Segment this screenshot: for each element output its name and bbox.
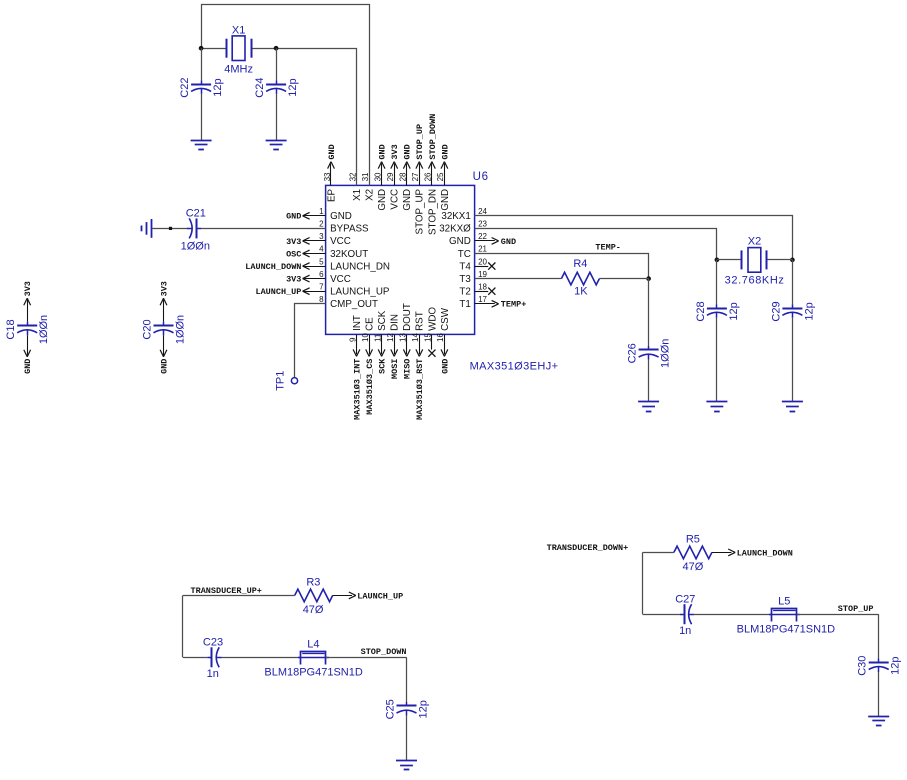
svg-text:MISO: MISO bbox=[403, 359, 413, 379]
wire L4 to corner bbox=[326, 657, 407, 659]
svg-text:GND: GND bbox=[159, 359, 169, 374]
C24 value 12p bbox=[287, 78, 299, 96]
svg-text:12p: 12p bbox=[803, 302, 815, 320]
pin 28 GND bbox=[399, 144, 414, 210]
svg-text:12p: 12p bbox=[212, 78, 224, 96]
pin 24 32KX1 bbox=[441, 207, 487, 222]
C26 reference designator bbox=[627, 343, 639, 363]
svg-text:X1: X1 bbox=[352, 189, 363, 201]
svg-text:19: 19 bbox=[478, 270, 487, 279]
svg-text:1n: 1n bbox=[679, 625, 691, 637]
svg-text:20: 20 bbox=[478, 257, 487, 266]
C30 reference designator bbox=[857, 656, 869, 676]
L4 value BLM18PG471SN1D bbox=[264, 667, 362, 679]
svg-text:32KX1: 32KX1 bbox=[441, 211, 470, 222]
svg-text:GND: GND bbox=[449, 236, 471, 247]
wire X1 right lead bbox=[251, 48, 276, 50]
svg-text:MAX351Ø3EHJ+: MAX351Ø3EHJ+ bbox=[470, 361, 559, 373]
svg-text:C18: C18 bbox=[5, 319, 17, 339]
svg-text:T1: T1 bbox=[459, 299, 470, 310]
svg-text:STOP_UP: STOP_UP bbox=[838, 604, 874, 614]
svg-text:R4: R4 bbox=[573, 258, 587, 270]
L5 reference designator bbox=[778, 596, 790, 608]
svg-text:4: 4 bbox=[319, 245, 324, 254]
svg-text:12p: 12p bbox=[418, 700, 430, 718]
capacitor C30 bbox=[869, 658, 889, 672]
pin 30 GND bbox=[373, 144, 388, 210]
C23 value 1n bbox=[207, 668, 219, 680]
svg-text:GND: GND bbox=[378, 144, 388, 159]
pin 10 CE bbox=[361, 317, 376, 415]
svg-text:BLM18PG471SN1D: BLM18PG471SN1D bbox=[737, 624, 835, 636]
svg-text:GND: GND bbox=[330, 211, 352, 222]
C20 reference designator bbox=[142, 319, 154, 339]
wire pin32 X1 net bbox=[277, 49, 357, 186]
svg-text:1n: 1n bbox=[207, 668, 219, 680]
wire left drop (right ckt) bbox=[642, 552, 644, 614]
resistor R3 bbox=[295, 589, 333, 602]
svg-text:3V3: 3V3 bbox=[390, 144, 400, 159]
R3 value 470 bbox=[303, 604, 324, 616]
wire-end dot bbox=[169, 227, 172, 230]
svg-text:LAUNCH_UP: LAUNCH_UP bbox=[357, 591, 403, 601]
svg-text:C27: C27 bbox=[675, 593, 695, 605]
svg-text:C23: C23 bbox=[203, 636, 223, 648]
net label STOP_DOWN bbox=[361, 647, 407, 657]
X2 value 32.768KHz bbox=[725, 274, 785, 286]
svg-text:TRANSDUCER_UP+: TRANSDUCER_UP+ bbox=[191, 586, 262, 596]
wire pin31 X2 net to top rail bbox=[202, 5, 370, 186]
pin 11 SCK bbox=[373, 310, 388, 374]
wire X1 left lead bbox=[201, 48, 226, 50]
svg-text:TEMP+: TEMP+ bbox=[501, 300, 527, 310]
pin 31 X2 bbox=[361, 172, 376, 201]
pin 1 GND bbox=[286, 207, 352, 222]
C22 value 12p bbox=[212, 78, 224, 96]
svg-text:12: 12 bbox=[386, 333, 395, 342]
svg-text:14: 14 bbox=[411, 333, 420, 342]
svg-text:C30: C30 bbox=[857, 656, 869, 676]
C18 reference designator bbox=[5, 319, 17, 339]
U6 value MAX35103EHJ+ bbox=[470, 361, 559, 373]
wire C23 to L4 bbox=[221, 657, 301, 659]
wire C25 lower stem bbox=[406, 716, 408, 761]
net label LAUNCH_DOWN bbox=[737, 548, 793, 558]
pin 5 LAUNCH_DN bbox=[245, 257, 390, 272]
svg-text:21: 21 bbox=[478, 245, 487, 254]
C28 value 12p bbox=[728, 302, 740, 320]
svg-text:CMP_OUT: CMP_OUT bbox=[330, 299, 378, 310]
wire R5 to LAUNCH_DOWN arrow bbox=[712, 552, 732, 554]
wire C22 upper stem bbox=[201, 48, 203, 80]
pin 7 LAUNCH_UP bbox=[255, 282, 389, 297]
svg-text:3V3: 3V3 bbox=[286, 275, 301, 285]
svg-text:MAX351Ø3_CS: MAX351Ø3_CS bbox=[365, 359, 375, 415]
wire X2 right lead bbox=[767, 259, 792, 261]
svg-text:CE: CE bbox=[365, 317, 376, 331]
C26 value 100n bbox=[660, 339, 672, 368]
wire TRANSDUCER_DOWN+ rail bbox=[643, 552, 674, 554]
svg-text:BLM18PG471SN1D: BLM18PG471SN1D bbox=[264, 667, 362, 679]
C29 reference designator bbox=[770, 301, 782, 321]
svg-text:RST: RST bbox=[415, 311, 426, 331]
svg-text:C20: C20 bbox=[142, 319, 154, 339]
wire C26 upper stem bbox=[648, 279, 650, 346]
ground (C29) bbox=[782, 402, 803, 412]
svg-text:WDO: WDO bbox=[427, 307, 438, 331]
svg-text:TRANSDUCER_DOWN+: TRANSDUCER_DOWN+ bbox=[547, 543, 629, 553]
svg-text:GND: GND bbox=[440, 144, 450, 159]
svg-text:LAUNCH_DN: LAUNCH_DN bbox=[330, 261, 390, 272]
pin 15 WDO bbox=[424, 307, 439, 357]
svg-text:CSW: CSW bbox=[440, 307, 451, 331]
svg-text:GND: GND bbox=[286, 212, 301, 222]
C27 reference designator bbox=[675, 593, 695, 605]
svg-text:25: 25 bbox=[436, 172, 445, 181]
node C junction (X2 left) bbox=[715, 258, 720, 263]
pin 29 VCC bbox=[386, 144, 401, 209]
svg-text:1ØØn: 1ØØn bbox=[660, 339, 672, 368]
svg-text:GND: GND bbox=[402, 189, 413, 211]
svg-text:GND: GND bbox=[440, 189, 451, 211]
R4 reference designator bbox=[573, 258, 587, 270]
capacitor C20 (3V3 decoupling) bbox=[154, 281, 174, 374]
pin 12 DIN bbox=[386, 314, 401, 379]
ground (C25) bbox=[396, 761, 417, 770]
wire pin24 32KX1 net bbox=[475, 216, 793, 260]
capacitor C24 bbox=[266, 80, 286, 94]
wire pin21 TC TEMP- net bbox=[475, 254, 649, 279]
svg-text:X2: X2 bbox=[365, 189, 376, 201]
wire C22 lower stem bbox=[201, 94, 203, 140]
svg-text:GND: GND bbox=[377, 189, 388, 211]
wire C24 lower stem bbox=[276, 94, 278, 140]
pin 9 INT bbox=[348, 315, 363, 420]
wire C29 lower stem bbox=[792, 318, 794, 402]
svg-text:LAUNCH_DOWN: LAUNCH_DOWN bbox=[737, 548, 793, 558]
svg-text:1K: 1K bbox=[574, 286, 588, 298]
svg-text:47Ø: 47Ø bbox=[683, 561, 704, 573]
C29 value 12p bbox=[803, 302, 815, 320]
wire C21 to pin2 BYPASS bbox=[201, 228, 326, 230]
node E junction (R4/C26) bbox=[646, 276, 651, 281]
capacitor C22 bbox=[191, 80, 211, 94]
svg-text:GND: GND bbox=[501, 237, 516, 247]
svg-text:C21: C21 bbox=[186, 208, 206, 220]
svg-text:L5: L5 bbox=[778, 596, 790, 608]
svg-text:T2: T2 bbox=[459, 287, 470, 298]
pin 14 RST bbox=[411, 311, 426, 420]
svg-text:LAUNCH_UP: LAUNCH_UP bbox=[330, 287, 390, 298]
svg-text:18: 18 bbox=[478, 282, 487, 291]
pin 18 T2 bbox=[459, 282, 495, 297]
svg-text:3V3: 3V3 bbox=[286, 237, 301, 247]
pin 22 GND bbox=[449, 232, 516, 247]
svg-text:C22: C22 bbox=[179, 78, 191, 98]
svg-text:GND: GND bbox=[403, 144, 413, 159]
svg-text:1ØØn: 1ØØn bbox=[181, 240, 210, 252]
R5 value 470 bbox=[683, 561, 704, 573]
svg-text:17: 17 bbox=[478, 295, 487, 304]
capacitor C23 bbox=[207, 647, 221, 667]
svg-text:6: 6 bbox=[319, 270, 324, 279]
pin 32 X1 bbox=[348, 172, 363, 201]
ground (C26) bbox=[638, 402, 659, 412]
svg-text:27: 27 bbox=[411, 172, 420, 181]
svg-text:22: 22 bbox=[478, 232, 487, 241]
svg-text:5: 5 bbox=[319, 257, 324, 266]
wire L5 to corner bbox=[797, 614, 879, 616]
wire R3 to LAUNCH_UP arrow bbox=[333, 595, 352, 597]
wire C28 lower stem bbox=[716, 318, 718, 402]
capacitor C18 (3V3 decoupling) bbox=[17, 281, 37, 374]
net label STOP_UP bbox=[838, 604, 874, 614]
svg-text:3: 3 bbox=[319, 232, 324, 241]
svg-text:29: 29 bbox=[386, 172, 395, 181]
svg-text:12p: 12p bbox=[728, 302, 740, 320]
svg-text:LAUNCH_DOWN: LAUNCH_DOWN bbox=[245, 262, 301, 272]
svg-text:GND: GND bbox=[327, 144, 337, 159]
capacitor C26 bbox=[639, 346, 659, 360]
C30 value 12p bbox=[890, 657, 902, 675]
capacitor C21 bbox=[187, 218, 201, 238]
X2 reference designator bbox=[748, 235, 761, 247]
ferrite bead L4 bbox=[298, 652, 329, 665]
node B junction (X1 right) bbox=[274, 46, 279, 51]
resistor R4 bbox=[561, 272, 599, 285]
node A junction (X1 left) bbox=[199, 46, 204, 51]
wire C24 upper stem bbox=[276, 48, 278, 80]
wire pin23 32KX0 net bbox=[475, 229, 717, 260]
pin 4 32KOUT bbox=[286, 245, 368, 260]
capacitor C27 bbox=[680, 604, 694, 624]
svg-text:MAX351Ø3_RST: MAX351Ø3_RST bbox=[415, 359, 425, 420]
C25 reference designator bbox=[385, 699, 397, 719]
resistor R5 bbox=[674, 546, 712, 559]
svg-text:T3: T3 bbox=[459, 274, 471, 285]
svg-text:1ØØn: 1ØØn bbox=[175, 315, 187, 344]
svg-text:STOP_UP: STOP_UP bbox=[415, 124, 425, 160]
X1 reference designator bbox=[232, 25, 245, 37]
svg-text:24: 24 bbox=[478, 207, 487, 216]
svg-text:4MHz: 4MHz bbox=[224, 64, 253, 76]
svg-text:SCK: SCK bbox=[377, 310, 388, 331]
wire X2 left lead bbox=[717, 259, 742, 261]
pin 26 STOP_DN bbox=[424, 114, 439, 235]
C27 value 1n bbox=[679, 625, 691, 637]
wire to C23 bbox=[183, 657, 207, 659]
R3 reference designator bbox=[306, 576, 320, 588]
pin 21 TC bbox=[458, 245, 488, 260]
ground (C24) bbox=[266, 141, 287, 150]
capacitor C29 bbox=[782, 304, 802, 318]
pin 16 CSW bbox=[436, 307, 451, 374]
pin 6 VCC bbox=[286, 270, 351, 285]
svg-text:32.768KHz: 32.768KHz bbox=[725, 274, 785, 286]
ground (C28) bbox=[706, 402, 727, 412]
svg-text:12p: 12p bbox=[287, 78, 299, 96]
wire pin8 CMP_OUT to TP1 bbox=[295, 304, 326, 378]
C21 value 100n bbox=[181, 240, 210, 252]
svg-text:INT: INT bbox=[352, 315, 363, 331]
wire ground to C21 bbox=[152, 228, 187, 230]
net label TRANSDUCER_DOWN+ bbox=[547, 543, 629, 553]
svg-text:VCC: VCC bbox=[330, 236, 351, 247]
capacitor C28 bbox=[707, 304, 727, 318]
svg-text:1ØØn: 1ØØn bbox=[38, 315, 50, 344]
test point TP1 bbox=[291, 378, 297, 384]
ground (C22) bbox=[191, 141, 212, 150]
wire drop to C25 bbox=[406, 657, 408, 702]
pin 3 VCC bbox=[286, 232, 351, 247]
pin 27 STOP_UP bbox=[411, 124, 426, 235]
svg-text:2: 2 bbox=[319, 220, 324, 229]
C24 reference designator bbox=[254, 78, 266, 98]
net label TEMP- bbox=[595, 243, 621, 253]
wire drop to C30 bbox=[878, 614, 880, 658]
svg-text:32KOUT: 32KOUT bbox=[330, 249, 368, 260]
L4 reference designator bbox=[307, 639, 319, 651]
svg-text:C29: C29 bbox=[770, 301, 782, 321]
svg-text:T4: T4 bbox=[459, 261, 471, 272]
R4 value 1K bbox=[574, 286, 588, 298]
C28 reference designator bbox=[695, 301, 707, 321]
svg-text:31: 31 bbox=[361, 172, 370, 181]
C20 value 100n bbox=[175, 315, 187, 344]
crystal X1 bbox=[227, 36, 252, 61]
wire pin19 T3 to R4 bbox=[475, 278, 562, 280]
L5 value BLM18PG471SN1D bbox=[737, 624, 835, 636]
ground (C30) bbox=[868, 717, 889, 726]
crystal X2 bbox=[742, 248, 767, 273]
svg-text:BYPASS: BYPASS bbox=[330, 224, 369, 235]
net label TRANSDUCER_UP+ bbox=[191, 586, 262, 596]
svg-text:12p: 12p bbox=[890, 657, 902, 675]
wire TRANSDUCER_UP+ rail bbox=[183, 595, 295, 597]
svg-text:STOP_DN: STOP_DN bbox=[427, 189, 438, 235]
svg-text:VCC: VCC bbox=[390, 189, 401, 210]
op-amp-style IC body U6 (MAX35103EHJ+) bbox=[326, 185, 475, 334]
wire C30 lower stem bbox=[878, 672, 880, 716]
svg-text:DOUT: DOUT bbox=[402, 303, 413, 331]
pin 2 BYPASS bbox=[319, 220, 369, 235]
svg-text:8: 8 bbox=[319, 295, 324, 304]
svg-text:GND: GND bbox=[23, 359, 33, 374]
C22 reference designator bbox=[179, 78, 191, 98]
capacitor C25 bbox=[397, 702, 417, 716]
svg-text:EP: EP bbox=[326, 188, 337, 202]
C25 value 12p bbox=[418, 700, 430, 718]
svg-text:DIN: DIN bbox=[390, 314, 401, 331]
pin 25 GND bbox=[436, 144, 451, 210]
svg-text:3V3: 3V3 bbox=[23, 281, 33, 296]
wire C26 lower stem bbox=[648, 360, 650, 402]
svg-text:1: 1 bbox=[319, 207, 324, 216]
svg-text:L4: L4 bbox=[307, 639, 319, 651]
wire left drop bbox=[182, 595, 184, 657]
net label LAUNCH_UP bbox=[357, 591, 403, 601]
C21 reference designator bbox=[186, 208, 206, 220]
svg-text:10: 10 bbox=[361, 333, 370, 342]
node D junction (X2 right) bbox=[790, 258, 795, 263]
U6 reference designator bbox=[473, 171, 489, 183]
C23 reference designator bbox=[203, 636, 223, 648]
svg-text:STOP_DOWN: STOP_DOWN bbox=[361, 647, 407, 657]
svg-text:23: 23 bbox=[478, 220, 487, 229]
X1 value 4MHz bbox=[224, 64, 253, 76]
svg-text:OSC: OSC bbox=[286, 249, 301, 259]
pin 13 DOUT bbox=[399, 303, 414, 379]
pin 23 32KXØ bbox=[439, 220, 487, 235]
TP1 reference designator bbox=[274, 371, 286, 391]
svg-text:47Ø: 47Ø bbox=[303, 604, 324, 616]
wire R4 to junction bbox=[599, 278, 648, 280]
svg-text:GND: GND bbox=[440, 359, 450, 374]
svg-text:3V3: 3V3 bbox=[159, 281, 169, 296]
svg-text:16: 16 bbox=[436, 333, 445, 342]
svg-text:7: 7 bbox=[319, 282, 324, 291]
svg-text:C28: C28 bbox=[695, 301, 707, 321]
svg-text:C24: C24 bbox=[254, 78, 266, 98]
net connector arrow LAUNCH_DOWN bbox=[728, 549, 735, 556]
svg-text:R5: R5 bbox=[686, 533, 700, 545]
wire C27 to L5 bbox=[694, 614, 772, 616]
svg-text:32KXØ: 32KXØ bbox=[439, 224, 471, 235]
svg-text:9: 9 bbox=[348, 337, 357, 342]
svg-text:TP1: TP1 bbox=[274, 371, 286, 391]
svg-text:MAX351Ø3_INT: MAX351Ø3_INT bbox=[352, 359, 362, 420]
pin 17 T1 bbox=[459, 295, 526, 310]
svg-text:X1: X1 bbox=[232, 25, 245, 37]
wire C28 upper stem bbox=[716, 260, 718, 304]
svg-text:SCK: SCK bbox=[378, 358, 388, 374]
C18 value 100n bbox=[38, 315, 50, 344]
R5 reference designator bbox=[686, 533, 700, 545]
svg-text:TEMP-: TEMP- bbox=[595, 243, 621, 253]
svg-text:C26: C26 bbox=[627, 343, 639, 363]
pin 20 T4 bbox=[459, 257, 495, 272]
svg-text:TC: TC bbox=[458, 249, 471, 260]
svg-text:MOSI: MOSI bbox=[390, 359, 400, 379]
svg-text:R3: R3 bbox=[306, 576, 320, 588]
svg-text:X2: X2 bbox=[748, 235, 761, 247]
pin 19 T3 bbox=[459, 270, 487, 285]
wire to C27 bbox=[643, 614, 680, 616]
net connector arrow LAUNCH_UP bbox=[349, 592, 356, 599]
svg-text:U6: U6 bbox=[473, 171, 489, 183]
svg-text:C25: C25 bbox=[385, 699, 397, 719]
svg-text:VCC: VCC bbox=[330, 274, 351, 285]
ground (C21, sideways) bbox=[142, 219, 152, 238]
pin 33 EP bbox=[323, 144, 338, 202]
pin 8 CMP_OUT bbox=[319, 295, 378, 310]
svg-text:STOP_UP: STOP_UP bbox=[415, 188, 426, 234]
wire C29 upper stem bbox=[792, 260, 794, 304]
ferrite bead L5 bbox=[769, 609, 800, 622]
svg-text:LAUNCH_UP: LAUNCH_UP bbox=[255, 287, 301, 297]
svg-text:STOP_DOWN: STOP_DOWN bbox=[428, 114, 438, 160]
